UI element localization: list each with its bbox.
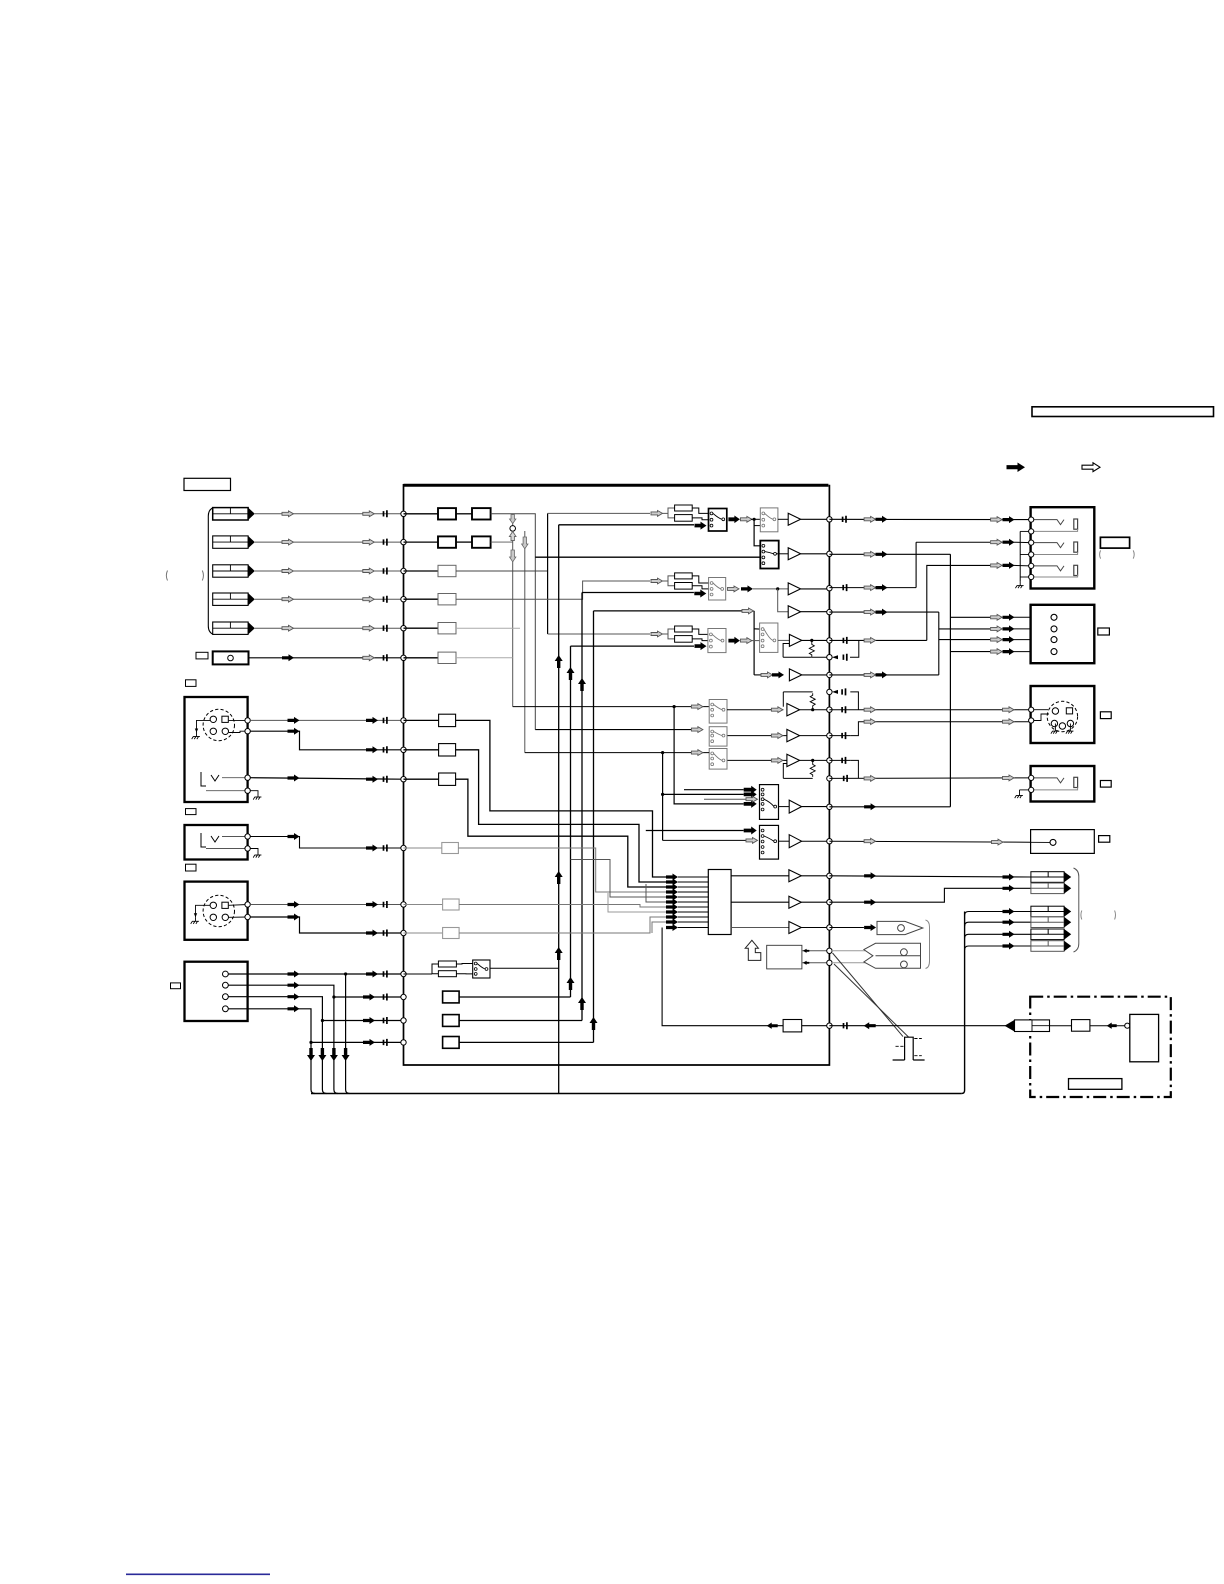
label box	[186, 809, 197, 815]
signal arrow	[288, 728, 300, 735]
node	[1029, 563, 1034, 568]
fb arrowhead	[832, 690, 838, 694]
pin arrow	[666, 879, 678, 886]
signal arrow	[1003, 908, 1015, 915]
riser elbow wire	[965, 934, 1031, 938]
connector CN2 (line input)	[213, 536, 248, 548]
wire	[404, 570, 439, 572]
wire	[1054, 724, 1056, 728]
signal arrow	[876, 671, 888, 678]
junction	[661, 793, 664, 796]
amp stage	[789, 800, 801, 813]
signal arrow	[744, 786, 757, 794]
capacitor	[842, 706, 845, 713]
control wire	[833, 953, 904, 1037]
wire	[197, 720, 211, 732]
ground	[253, 793, 261, 800]
pin arrow	[666, 924, 678, 931]
signal arrow	[366, 746, 378, 753]
wire	[692, 576, 708, 583]
wire	[228, 973, 402, 975]
drop wire	[228, 985, 334, 1089]
wire	[491, 541, 513, 543]
fb arrowhead	[832, 655, 838, 659]
riser elbow wire	[965, 946, 1031, 950]
gnd arrowhead	[194, 913, 197, 917]
feeder wire	[674, 707, 744, 804]
node	[245, 834, 250, 839]
node	[827, 638, 832, 643]
riser elbow wire	[965, 912, 1031, 916]
switch SW7	[709, 700, 727, 724]
signal arrow	[771, 758, 783, 764]
feedback resistor	[809, 640, 814, 657]
buffer amp	[788, 548, 800, 560]
wire	[456, 513, 472, 515]
feeder wire	[512, 531, 514, 706]
wire	[404, 904, 443, 906]
wire	[802, 840, 829, 842]
wire	[802, 674, 829, 676]
wire	[802, 806, 829, 808]
wire	[490, 967, 559, 969]
node	[827, 707, 832, 712]
label box	[186, 864, 197, 871]
signal arrow	[864, 585, 876, 591]
signal arrow	[864, 707, 876, 713]
filter block	[438, 565, 456, 576]
signal arrow	[1003, 707, 1015, 713]
feeder wire	[754, 519, 760, 546]
node	[827, 551, 832, 556]
connector CN-R2	[1031, 883, 1064, 894]
wire	[1020, 554, 1028, 556]
node	[401, 626, 406, 631]
wire	[229, 904, 248, 907]
wire	[678, 886, 708, 888]
capacitor	[843, 516, 846, 523]
feedback wire	[850, 760, 858, 778]
wire	[829, 1025, 1005, 1027]
connector CN-R4	[1031, 917, 1064, 928]
wire	[663, 793, 744, 795]
wire	[229, 719, 248, 721]
label box	[1099, 836, 1110, 843]
down arrow	[510, 515, 516, 524]
wire	[1090, 1025, 1126, 1027]
wire	[678, 891, 708, 893]
wire	[829, 759, 850, 761]
group bracket	[1074, 868, 1079, 952]
signal arrow	[363, 994, 375, 1001]
wire	[250, 849, 258, 852]
node	[245, 788, 250, 793]
signal arrow	[691, 750, 703, 756]
wire	[513, 706, 710, 708]
switch SW5	[708, 629, 726, 653]
node	[1029, 707, 1034, 712]
signal arrow	[282, 596, 294, 602]
signal arrow	[363, 625, 375, 631]
wire	[646, 830, 744, 832]
riser wire	[593, 611, 595, 1043]
down arrow	[522, 537, 528, 549]
wire	[704, 798, 746, 800]
signal arrow	[288, 914, 300, 921]
pin arrow	[666, 904, 678, 911]
wire	[456, 963, 472, 966]
wire	[250, 917, 402, 933]
signal arrow	[695, 642, 707, 650]
node	[1029, 529, 1034, 534]
signal arrow	[288, 833, 300, 840]
wire	[731, 875, 789, 877]
signal arrow	[307, 1048, 315, 1061]
capacitor	[843, 654, 846, 661]
filter block	[438, 594, 456, 605]
node	[401, 568, 406, 573]
stair wire	[459, 905, 668, 908]
capacitor	[843, 637, 846, 644]
DSP chip U1	[708, 870, 731, 935]
node	[245, 718, 250, 723]
signal arrow	[864, 872, 876, 879]
wire	[950, 616, 990, 618]
input box J-A	[185, 697, 248, 802]
wire	[255, 627, 402, 629]
signal arrow	[1003, 539, 1015, 546]
feeder wire	[938, 612, 940, 675]
signal arrow	[288, 717, 300, 724]
capacitor	[842, 757, 845, 764]
filter block	[438, 508, 456, 519]
node	[827, 672, 832, 677]
signal arrow	[991, 517, 1003, 523]
selector SWA	[760, 785, 779, 820]
selector SWB	[760, 825, 779, 859]
signal arrow	[366, 971, 378, 978]
ctl arrow	[864, 1022, 876, 1029]
signal arrow	[1003, 516, 1015, 523]
junction	[321, 1019, 324, 1022]
node	[827, 960, 832, 965]
node	[827, 586, 832, 591]
wire	[334, 996, 402, 998]
junction node	[510, 526, 516, 532]
gnd arrowhead	[195, 729, 198, 733]
capacitor C2	[384, 539, 387, 546]
node	[401, 718, 406, 723]
pin arrow	[666, 914, 678, 921]
wire	[255, 598, 402, 600]
signal arrow	[366, 901, 378, 908]
node	[827, 1023, 832, 1028]
capacitor	[844, 1022, 847, 1029]
signal arrow	[1003, 775, 1015, 781]
wire	[404, 513, 439, 515]
buffer amp	[789, 669, 801, 681]
wire	[832, 962, 875, 964]
signal arrow	[991, 626, 1003, 632]
wire	[559, 524, 694, 526]
wire	[950, 651, 990, 653]
node	[827, 517, 832, 522]
stair wire	[571, 860, 669, 898]
wire	[255, 570, 402, 572]
riser wire	[558, 525, 560, 1094]
capacitor	[843, 584, 846, 591]
node	[827, 758, 832, 763]
wire	[829, 888, 1031, 902]
up arrow	[578, 997, 586, 1010]
signal arrow	[991, 539, 1003, 545]
stair wire	[608, 893, 668, 912]
signal arrow	[864, 719, 876, 725]
wire	[801, 875, 828, 877]
signal arrow	[288, 901, 300, 908]
signal arrow	[1003, 614, 1015, 621]
output box J-1	[1031, 507, 1095, 588]
stair wire	[456, 750, 668, 882]
wire	[778, 518, 788, 520]
capacitor C6	[384, 654, 387, 661]
filter block	[472, 536, 491, 547]
wire	[692, 639, 708, 641]
feedback resistor	[810, 693, 815, 710]
connector CN5 (line input)	[213, 622, 248, 634]
capacitor	[844, 775, 847, 782]
wire	[754, 674, 761, 676]
wire	[249, 657, 403, 659]
signal arrow	[363, 539, 375, 545]
node	[827, 948, 832, 953]
resistor pair RP1	[662, 508, 675, 513]
label box	[186, 680, 197, 687]
feeder wire	[456, 570, 548, 572]
riser wire	[581, 593, 583, 1021]
wire	[692, 518, 708, 520]
signal arrow	[1003, 931, 1015, 938]
signal arrow	[363, 1039, 375, 1046]
capacitor C1	[384, 510, 387, 517]
wire	[801, 588, 829, 590]
wire	[678, 876, 708, 878]
node	[401, 539, 406, 544]
wire	[229, 916, 248, 918]
wire	[222, 836, 248, 838]
signal arrow	[695, 522, 707, 530]
signal arrow	[1003, 874, 1015, 881]
signal arrow	[694, 590, 706, 598]
wire	[801, 927, 828, 929]
feeder wire	[512, 514, 514, 526]
capacitor C3	[384, 568, 387, 575]
filter block	[443, 928, 460, 939]
wire	[778, 639, 790, 641]
wire	[322, 1020, 402, 1022]
signal arrow	[742, 608, 754, 614]
wire	[459, 1041, 593, 1043]
wire	[776, 553, 788, 555]
connector CN-R6	[1031, 941, 1064, 952]
wire	[1014, 651, 1051, 653]
fuse block	[1072, 1020, 1090, 1032]
wire	[456, 541, 472, 543]
filter block	[442, 843, 459, 854]
node	[827, 873, 832, 878]
wire	[1020, 576, 1028, 578]
feeder wire	[915, 542, 917, 587]
signal arrow	[282, 625, 294, 631]
node	[401, 655, 406, 660]
signal arrow	[864, 803, 876, 810]
wire	[829, 927, 864, 929]
wire	[525, 752, 709, 754]
buffer amp	[788, 583, 800, 595]
junction	[753, 518, 756, 521]
wire	[404, 719, 439, 721]
junction	[309, 1041, 312, 1044]
signal arrow	[1003, 648, 1015, 655]
pin arrow	[666, 909, 678, 916]
junction	[661, 751, 664, 754]
switch SW8	[709, 727, 727, 746]
DIN connector A	[203, 709, 234, 740]
node	[827, 839, 832, 844]
op-amp A1	[787, 704, 800, 716]
up arrow	[555, 947, 563, 960]
wire	[459, 1020, 582, 1022]
pin	[223, 994, 229, 1000]
wire	[829, 806, 950, 808]
ctl arrow	[803, 949, 810, 953]
wire	[939, 628, 990, 630]
node	[401, 747, 406, 752]
wire	[801, 901, 828, 903]
signal arrow	[991, 563, 1003, 569]
drop wire	[228, 997, 322, 1090]
signal arrow	[876, 609, 888, 616]
connector CN-R3	[1031, 906, 1064, 917]
group label box	[184, 478, 231, 490]
node	[1029, 787, 1034, 792]
wire	[548, 512, 650, 514]
wire	[802, 950, 829, 952]
jack symbol 3	[1033, 566, 1064, 571]
wire	[548, 633, 650, 635]
connector CN3 (line input)	[213, 565, 248, 577]
plug bracket	[926, 920, 930, 969]
signal arrow	[363, 596, 375, 602]
feedback resistor	[810, 760, 815, 777]
feeder wire	[456, 657, 513, 659]
wire	[250, 778, 402, 780]
signal arrow	[744, 790, 757, 798]
node	[827, 804, 832, 809]
wire	[751, 640, 760, 642]
stair wire	[458, 848, 668, 892]
pin	[1051, 626, 1057, 632]
signal arrow	[288, 1005, 300, 1012]
signal arrow	[864, 899, 876, 906]
wire	[456, 973, 472, 975]
signal arrow	[744, 800, 757, 808]
switch SW-D	[473, 960, 490, 978]
wire	[1014, 616, 1051, 618]
signal arrow	[651, 631, 663, 637]
wire	[802, 639, 829, 641]
wire	[255, 541, 402, 543]
signal arrow	[864, 924, 876, 931]
signal arrow	[864, 776, 876, 782]
wire	[829, 709, 1030, 711]
wire	[1050, 1025, 1072, 1027]
filter block	[443, 899, 460, 910]
connector CN6	[213, 651, 249, 664]
pin arrow	[666, 874, 678, 881]
up arrow	[590, 1017, 598, 1030]
signal arrow	[864, 638, 876, 644]
jack A	[201, 772, 219, 786]
label box	[1069, 1079, 1122, 1090]
ground	[253, 851, 261, 858]
junction	[332, 995, 335, 998]
signal arrow	[991, 614, 1003, 620]
feeder wire	[547, 513, 549, 634]
junction	[776, 587, 779, 590]
wire	[222, 777, 248, 779]
node	[1029, 718, 1034, 723]
signal arrow	[282, 568, 294, 574]
feeder wire	[456, 627, 520, 629]
pin	[223, 971, 229, 977]
node	[245, 846, 250, 851]
wire	[432, 973, 438, 975]
wire	[206, 848, 248, 850]
signal arrow	[1003, 885, 1015, 892]
signal arrow	[282, 654, 294, 661]
capacitor	[384, 994, 387, 1001]
pin arrow	[666, 899, 678, 906]
stair wire	[456, 720, 668, 877]
bus riser wire	[961, 912, 964, 1094]
op-amp A2	[787, 754, 800, 766]
capacitor	[384, 845, 387, 852]
input group brace	[208, 508, 213, 635]
node	[1029, 517, 1034, 522]
junction	[810, 639, 813, 642]
switch SW1	[709, 509, 727, 532]
wire	[731, 927, 789, 929]
ctl arrow	[1107, 1022, 1117, 1028]
signal arrow	[691, 704, 703, 710]
capacitor	[384, 971, 387, 978]
feeder wire	[778, 589, 789, 612]
riser wire	[570, 646, 572, 997]
wire	[1014, 541, 1031, 543]
up arrow	[555, 655, 563, 668]
wire	[751, 518, 760, 520]
wire	[800, 735, 829, 737]
signal arrow	[330, 1048, 338, 1061]
filter block	[438, 652, 456, 663]
signal arrow	[288, 971, 300, 978]
system control block	[767, 945, 802, 969]
capacitor	[384, 776, 387, 783]
output box J-2	[1031, 605, 1095, 663]
signal arrow	[746, 796, 758, 802]
resistor pair RP2	[662, 576, 675, 581]
